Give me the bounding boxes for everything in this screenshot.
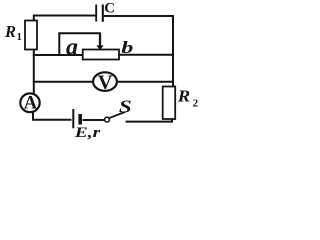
- svg-text:R: R: [4, 22, 16, 41]
- ammeter A: [20, 93, 39, 112]
- resistor R1: [25, 21, 37, 50]
- wire battery to switch: [83, 119, 105, 121]
- wire node to pot terminal a: [33, 54, 83, 56]
- wire pot terminal b to right vertical: [119, 54, 173, 56]
- wire bottom-left from A to battery: [32, 119, 72, 121]
- capacitor C1 right plate: [102, 4, 104, 21]
- battery E,r short plate: [78, 114, 82, 125]
- svg-text:E,r: E,r: [74, 124, 101, 140]
- svg-text:2: 2: [193, 97, 199, 109]
- wire top-right from capacitor to corner: [104, 15, 173, 88]
- potentiometer slider box: [83, 50, 119, 60]
- wire wiper vertical with arrow: [99, 33, 101, 47]
- switch S blade: [109, 112, 126, 118]
- wire A bottom stub: [32, 112, 34, 121]
- voltmeter V: [93, 72, 117, 91]
- svg-text:V: V: [98, 71, 113, 93]
- wire voltmeter right: [117, 81, 173, 83]
- svg-text:A: A: [24, 94, 38, 114]
- svg-text:S: S: [119, 98, 132, 117]
- svg-text:1: 1: [17, 32, 22, 43]
- svg-text:C: C: [104, 1, 115, 17]
- capacitor C1 left plate: [95, 5, 97, 22]
- wire voltmeter left: [33, 81, 94, 83]
- wire top-left from R1 top to capacitor: [33, 16, 96, 22]
- svg-text:a: a: [66, 34, 78, 60]
- wire R2 bottom stub: [171, 119, 173, 122]
- switch S pivot: [105, 117, 110, 122]
- wire wiper stub down to a-wire: [58, 33, 60, 57]
- resistor R2: [163, 87, 176, 120]
- wire bottom-right from switch to R2: [126, 121, 174, 123]
- wire left vertical from R1 bottom to A top: [33, 50, 35, 95]
- battery E,r long plate: [72, 109, 74, 128]
- wire wiper horizontal: [58, 32, 101, 34]
- svg-text:R: R: [177, 86, 191, 105]
